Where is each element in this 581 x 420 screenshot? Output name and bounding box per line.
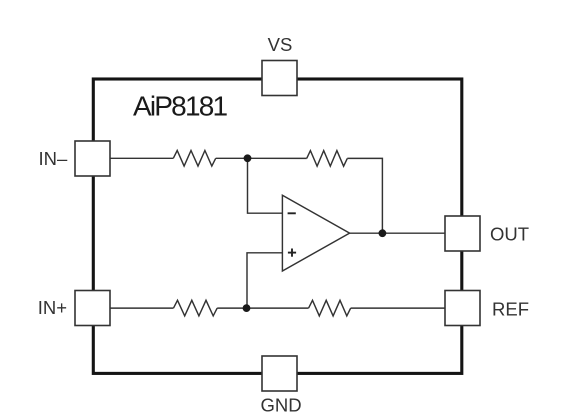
pin box IN+ <box>75 291 110 326</box>
IC boundary rectangle <box>93 79 462 373</box>
svg-text:GND: GND <box>260 395 301 416</box>
svg-text:IN–: IN– <box>39 148 69 169</box>
resistor R1 (IN- input) <box>173 151 215 167</box>
wire op-amp output to OUT box <box>350 232 445 234</box>
wire node A to R3 <box>248 157 307 159</box>
pin box GND <box>262 356 297 391</box>
output node junction dot <box>379 229 387 237</box>
svg-text:OUT: OUT <box>490 223 529 244</box>
wire node B to R4 <box>247 307 309 309</box>
node A junction dot <box>244 154 252 162</box>
wire R4 to REF box <box>351 307 445 309</box>
wire IN- box to R1 <box>110 157 173 159</box>
svg-text:VS: VS <box>268 34 293 55</box>
node B junction dot <box>243 304 251 312</box>
wire R3 to feedback corner <box>347 158 382 233</box>
pin box OUT <box>445 216 480 251</box>
resistor R2 (IN+ input) <box>174 300 218 316</box>
pin box VS <box>262 61 297 96</box>
wire R2 to node B <box>217 307 246 309</box>
wire node A down to op-amp inverting input <box>248 158 283 213</box>
wire node B up to op-amp non-inverting input <box>247 253 282 308</box>
svg-text:IN+: IN+ <box>38 297 67 318</box>
svg-text:REF: REF <box>492 299 529 320</box>
wire R1 to node A <box>216 157 248 159</box>
resistor R4 (reference) <box>309 300 351 316</box>
svg-text:AiP8181: AiP8181 <box>133 91 227 122</box>
resistor R3 (feedback) <box>307 151 348 167</box>
wire IN+ box to R2 <box>110 307 174 309</box>
pin box REF <box>445 291 480 326</box>
pin box IN- <box>75 141 110 176</box>
op-amp U1 <box>282 195 349 271</box>
